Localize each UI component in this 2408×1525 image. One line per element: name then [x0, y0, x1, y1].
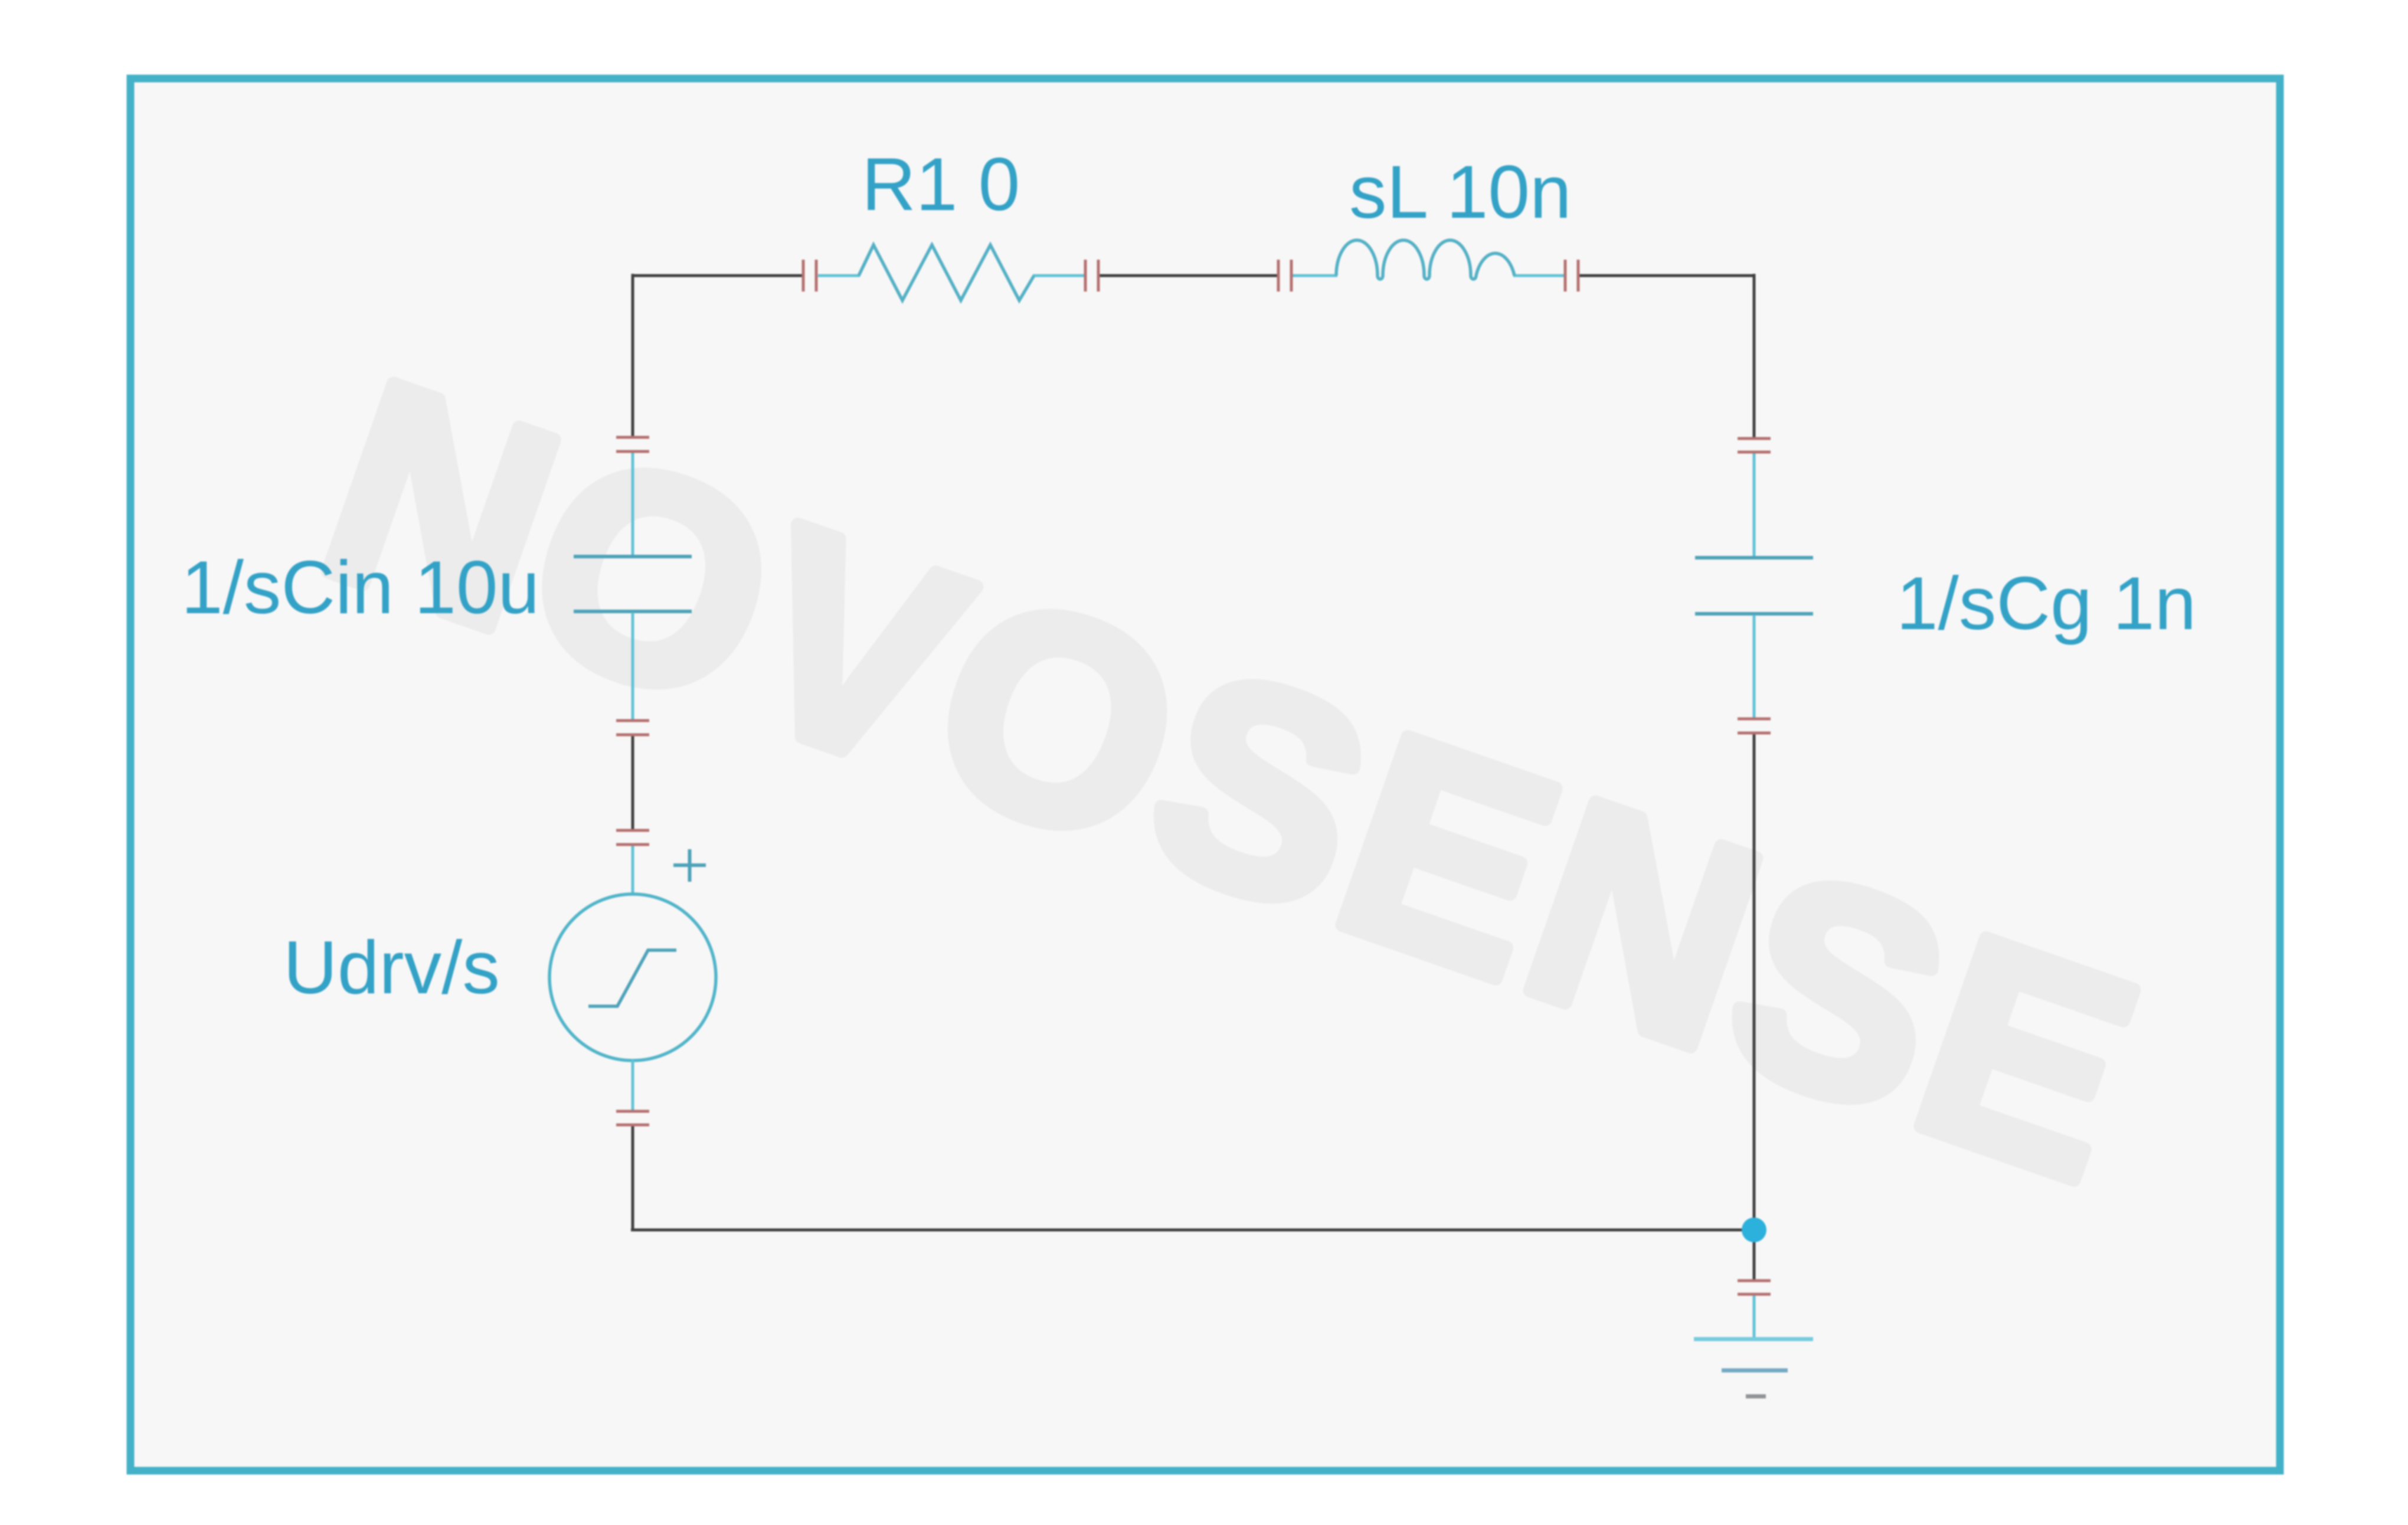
svg-text:sL 10n: sL 10n [1349, 150, 1572, 234]
svg-text:Udrv/s: Udrv/s [283, 925, 500, 1009]
lead after inductor [1513, 274, 1566, 277]
pin marks inductor right [1565, 260, 1578, 292]
pin marks Cg bottom [1738, 719, 1771, 733]
ground lead [1753, 1295, 1756, 1339]
voltage source plus sign [673, 849, 706, 882]
svg-text:1/sCin 10u: 1/sCin 10u [181, 545, 539, 629]
resistor R1 zigzag [859, 245, 1034, 300]
wire bottom [631, 1229, 1754, 1232]
pin marks source top [616, 830, 649, 845]
ground bar 3 [1746, 1395, 1766, 1399]
ground bar 2 [1722, 1369, 1788, 1373]
capacitor Cin bottom plate [574, 610, 692, 613]
wire top-right segment [1578, 274, 1756, 277]
capacitor Cin top plate [574, 555, 692, 558]
lead after resistor [1033, 274, 1086, 277]
pin marks Cin bottom [616, 721, 649, 735]
voltage source bottom lead [632, 1060, 634, 1111]
wire left lower [632, 1125, 634, 1231]
pin marks ground [1738, 1281, 1771, 1294]
pin marks resistor left [803, 260, 816, 292]
pin marks Cg top [1738, 438, 1771, 452]
voltage source ramp symbol [588, 950, 676, 1006]
capacitor Cg top plate [1695, 556, 1813, 559]
wire left between Cin and source [632, 735, 634, 830]
wire left upper [632, 274, 634, 437]
capacitor Cg bottom lead [1753, 615, 1756, 719]
capacitor Cin top lead [632, 452, 634, 555]
inductor sL coils [1336, 240, 1514, 279]
junction node dot [1742, 1218, 1766, 1242]
pin marks inductor left [1278, 260, 1291, 292]
wire top-left segment [633, 274, 803, 277]
wire top-middle segment [1098, 274, 1278, 277]
capacitor Cg top lead [1753, 453, 1756, 557]
voltage source circle U1 [549, 894, 716, 1061]
svg-text:1/sCg 1n: 1/sCg 1n [1896, 561, 2196, 645]
lead before resistor [818, 274, 860, 277]
voltage source top lead [632, 844, 634, 895]
lead before inductor [1291, 274, 1337, 277]
capacitor Cg bottom plate [1695, 612, 1813, 616]
pin marks Cin top [616, 437, 649, 451]
pin marks resistor right [1085, 260, 1098, 292]
pin marks source bottom [616, 1111, 649, 1125]
capacitor Cin bottom lead [632, 613, 634, 721]
ground bar 1 [1694, 1337, 1813, 1341]
wire right upper [1753, 274, 1756, 438]
svg-text:R1 0: R1 0 [862, 142, 1020, 226]
wire right lower [1753, 734, 1756, 1280]
